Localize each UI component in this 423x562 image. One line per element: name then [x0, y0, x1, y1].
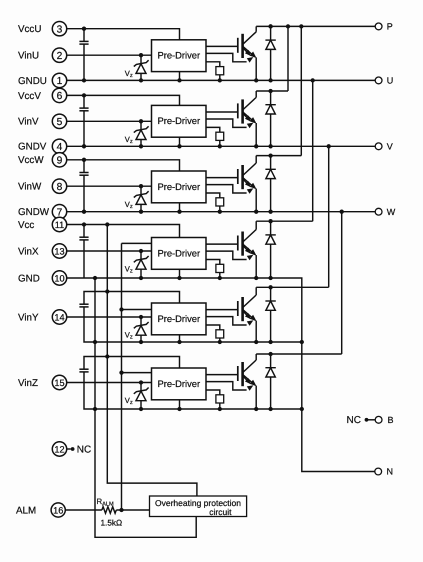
junction Vcc bus tap: [105, 289, 109, 293]
wire collector of Q2: [255, 91, 257, 97]
main rail P (positive DC bus): [256, 25, 375, 27]
wire emitter of Q4 to rail: [255, 255, 257, 278]
capacitor C6: [79, 369, 88, 372]
terminal N: [375, 467, 393, 477]
junction bus tap on rail: [327, 144, 331, 148]
terminal W: [375, 207, 396, 217]
svg-text:VinZ: VinZ: [18, 378, 38, 389]
diode D3 (freewheeling): [265, 153, 275, 213]
svg-text:10: 10: [54, 274, 64, 284]
svg-text:V: V: [387, 142, 393, 152]
capacitor C5: [79, 304, 88, 307]
junction Vcc/C4: [82, 222, 86, 226]
pre-driver U5 (Y-phase driver block): [152, 303, 207, 335]
junction alarm bus tap: [119, 370, 123, 374]
wire local Vcc line to U5 top: [84, 292, 180, 305]
pin 10 terminal circle (GND): [52, 271, 66, 285]
resistor RALM 1.5k: [97, 497, 123, 527]
resistor RS6 (current sense): [206, 390, 224, 411]
wire VccW line from pin to U3 top: [67, 160, 180, 171]
transistor Q1 (IGBT U): [238, 32, 257, 58]
junction alarm bus / ALM node: [119, 508, 123, 512]
svg-text:9: 9: [57, 155, 63, 166]
pin 15 terminal circle (VinZ): [52, 375, 66, 389]
junction diode D1 on P rail: [268, 24, 272, 28]
zener diode ZD6 (Vz clamp): [134, 380, 149, 411]
svg-text:Vz: Vz: [125, 200, 133, 210]
wire VinV line into U2: [67, 120, 152, 122]
main rail V (output line / GNDV): [67, 145, 375, 147]
wire VccV line from pin to U2 top: [67, 95, 180, 105]
pre-driver U1 (U-phase driver block): [152, 40, 207, 72]
diode D1 (freewheeling): [265, 24, 275, 82]
wire collector bus from rail to section 5: [328, 146, 330, 287]
pin 3 terminal circle (VccU): [52, 22, 66, 36]
wire VinX line into U4: [67, 250, 152, 252]
resistor RS5 (current sense): [206, 325, 224, 344]
terminal U: [375, 76, 393, 86]
pin 13 terminal circle (VinX): [52, 244, 66, 258]
transistor Q6 (IGBT Z): [238, 360, 257, 386]
svg-text:Pre-Driver: Pre-Driver: [157, 247, 200, 258]
svg-text:NC: NC: [77, 445, 91, 456]
svg-text:U: U: [387, 76, 394, 86]
wire collector step rail section 2: [256, 90, 288, 92]
resistor RS3 (current sense): [206, 193, 224, 214]
junction bus tap on rail: [340, 210, 344, 214]
svg-text:VinV: VinV: [18, 117, 39, 128]
pin 1 terminal circle (GNDU): [52, 73, 66, 87]
junction GND bus on Z emitter line: [93, 407, 97, 411]
wire U3 ground leg: [179, 203, 181, 212]
resistor RS2 (current sense): [206, 127, 224, 148]
overheating protection circuit block: [150, 496, 247, 517]
wire GND(10) line to N bus: [67, 278, 375, 472]
svg-text:VinU: VinU: [18, 51, 39, 62]
svg-text:B: B: [388, 415, 394, 425]
svg-text:3: 3: [57, 24, 63, 35]
wire collector bus from rail to section 6: [341, 212, 343, 354]
zener diode ZD5 (Vz clamp): [134, 315, 149, 344]
capacitor C2: [79, 95, 88, 146]
wire alarm input into U5: [122, 309, 152, 311]
junction bus tap on rail: [286, 24, 290, 28]
wire Vcc bus (pin 11) down to protection circuit: [107, 225, 197, 497]
wire Y emitter line: [84, 307, 302, 342]
wire ALM node to protection box: [116, 509, 149, 511]
wire VinW line into U3: [67, 185, 152, 187]
NC dot at B: [365, 418, 369, 422]
wire VinY line into U5: [67, 316, 152, 318]
junction Y emitter line on N bus: [300, 340, 304, 344]
wire pin 12 stub to NC dot: [67, 448, 71, 450]
wire emitter of Q6 to rail: [255, 386, 257, 409]
wire VccU line from pin to U1 top: [67, 29, 180, 40]
wire VinZ line into U6: [67, 382, 152, 384]
junction VccW/C3: [82, 158, 86, 162]
pin 9 terminal circle (VccW): [52, 153, 66, 167]
wire collector of Q1: [255, 26, 257, 31]
wire gate lead U3 to Q3: [206, 177, 238, 179]
junction VccU/C1: [82, 27, 86, 31]
pin 14 terminal circle (VinY): [52, 310, 66, 324]
wire collector of Q6: [255, 354, 257, 360]
wire U2 ground leg: [179, 137, 181, 146]
wire collector bus from rail to section 3: [300, 26, 302, 155]
diode D6 (freewheeling): [265, 352, 275, 411]
wire gate lead U5 to Q5: [206, 309, 238, 311]
svg-text:NC: NC: [347, 415, 361, 426]
wire U4 ground leg: [179, 269, 181, 278]
wire U1 ground leg: [179, 72, 181, 81]
wire emitter of Q2 to rail: [255, 123, 257, 146]
pre-driver U2 (V-phase driver block): [152, 105, 207, 137]
junction C on rail W: [82, 210, 86, 214]
wire alarm input into U6: [122, 372, 152, 374]
wire gate lead U4 to Q4: [206, 243, 238, 245]
wire U6 ground leg: [179, 400, 181, 409]
junction Vcc bus tap: [105, 222, 109, 226]
svg-text:Pre-Driver: Pre-Driver: [157, 115, 200, 126]
wire gate lead U1 to Q1: [206, 45, 238, 47]
wire U1 sense output: [206, 53, 247, 61]
svg-text:Vz: Vz: [125, 69, 133, 79]
wire NC stub to B: [368, 419, 376, 421]
svg-text:VinX: VinX: [18, 246, 39, 257]
pre-driver U4 (X-phase driver block): [152, 238, 207, 270]
svg-text:VinW: VinW: [18, 182, 42, 193]
pre-driver U3 (W-phase driver block): [152, 171, 207, 203]
svg-text:Pre-Driver: Pre-Driver: [157, 313, 200, 324]
diode D4 (freewheeling): [265, 219, 275, 280]
svg-text:Vcc: Vcc: [18, 220, 34, 231]
wire collector bus from rail to section 4: [312, 80, 314, 221]
svg-text:4: 4: [57, 142, 63, 153]
svg-text:Vz: Vz: [125, 265, 133, 275]
junction GND bus on GND line: [93, 276, 97, 280]
wire U3 sense output: [206, 185, 247, 193]
svg-text:Vz: Vz: [125, 135, 133, 145]
svg-text:13: 13: [54, 247, 64, 257]
pin 2 terminal circle (VinU): [52, 48, 66, 62]
svg-text:15: 15: [54, 378, 64, 388]
svg-text:Pre-Driver: Pre-Driver: [157, 378, 200, 389]
junction Z emitter line on N bus: [300, 407, 304, 411]
resistor RS1 (current sense): [206, 62, 224, 83]
capacitor C4: [79, 225, 88, 279]
svg-text:16: 16: [53, 506, 63, 516]
wire alarm input into U4: [122, 242, 152, 244]
wire collector of Q4: [255, 221, 257, 229]
svg-text:2: 2: [57, 51, 63, 62]
pre-driver U6 (Z-phase driver block): [152, 368, 207, 400]
zener diode ZD2 (Vz clamp): [134, 119, 149, 148]
wire U2 sense output: [206, 119, 247, 127]
wire emitter of Q3 to rail: [255, 189, 257, 212]
svg-text:P: P: [387, 22, 393, 32]
svg-text:1.5kΩ: 1.5kΩ: [101, 519, 123, 528]
svg-text:GNDU: GNDU: [18, 76, 47, 87]
pin 16 terminal circle (ALM): [51, 503, 65, 517]
svg-text:8: 8: [57, 182, 63, 193]
capacitor C3: [79, 160, 88, 212]
wire ALM line: [65, 509, 102, 511]
junction bus tap on rail: [299, 24, 303, 28]
wire collector step rail section 6: [256, 353, 342, 355]
wire collector step rail section 4: [256, 220, 313, 222]
svg-text:GNDW: GNDW: [18, 207, 50, 218]
wire gate lead U6 to Q6: [206, 374, 238, 376]
svg-text:Vz: Vz: [125, 396, 133, 406]
transistor Q4 (IGBT X): [238, 230, 257, 256]
pin 8 terminal circle (VinW): [52, 179, 66, 193]
svg-text:N: N: [387, 467, 394, 477]
junction Vcc bus tap: [105, 354, 109, 358]
junction C on rail U: [82, 78, 86, 82]
wire gate lead U2 to Q2: [206, 111, 238, 113]
svg-text:VccV: VccV: [18, 91, 41, 102]
main rail U (output line / GNDU): [67, 79, 375, 81]
wire collector of Q3: [255, 156, 257, 163]
svg-text:RALM: RALM: [97, 497, 114, 507]
svg-text:6: 6: [57, 91, 63, 102]
resistor RS4 (current sense): [206, 260, 224, 281]
capacitor C1: [79, 29, 88, 81]
svg-text:Pre-Driver: Pre-Driver: [157, 181, 200, 192]
wire VinU line into U1: [67, 54, 152, 56]
transistor Q3 (IGBT W): [238, 163, 257, 189]
junction alarm bus tap: [119, 307, 123, 311]
terminal V: [375, 142, 393, 152]
wire emitter of Q5 to rail: [255, 321, 257, 342]
junction GND bus on Y emitter line: [93, 340, 97, 344]
wire U5 sense output: [206, 317, 247, 325]
wire collector bus from rail to section 2: [287, 26, 289, 91]
svg-text:12: 12: [54, 445, 64, 455]
svg-text:ALM: ALM: [16, 506, 36, 517]
terminal B: [375, 415, 393, 425]
svg-text:VinY: VinY: [18, 312, 39, 323]
zener diode ZD3 (Vz clamp): [134, 184, 149, 214]
wire emitter of Q1 to rail: [255, 57, 257, 80]
wire Vcc line from pin to U4 top: [67, 225, 180, 238]
junction bus tap on rail: [311, 78, 315, 82]
svg-text:11: 11: [55, 220, 65, 230]
wire collector step rail section 5: [256, 286, 329, 288]
wire alarm bus: [121, 243, 123, 510]
svg-text:VccW: VccW: [18, 155, 44, 166]
svg-text:W: W: [387, 207, 396, 217]
wire collector step rail section 3: [256, 155, 301, 157]
svg-text:14: 14: [54, 313, 64, 323]
svg-text:Vz: Vz: [125, 331, 133, 341]
zener diode ZD4 (Vz clamp): [134, 249, 149, 280]
wire GND bus (pin 10) down and around to protection circuit: [95, 278, 196, 537]
junction VccV/C2: [82, 93, 86, 97]
pin 7 terminal circle (GNDW): [52, 205, 66, 219]
wire U5 ground leg: [179, 335, 181, 342]
svg-text:1: 1: [57, 76, 63, 87]
diode D5 (freewheeling): [265, 285, 275, 344]
svg-text:GNDV: GNDV: [18, 142, 47, 153]
svg-text:VccU: VccU: [18, 24, 41, 35]
pin 5 terminal circle (VinV): [52, 114, 66, 128]
pin 12 terminal circle (NC): [52, 442, 66, 456]
wire collector of Q5: [255, 287, 257, 295]
zener diode ZD1 (Vz clamp): [134, 53, 149, 83]
pin 11 terminal circle (Vcc): [52, 217, 66, 231]
wire Z emitter line: [84, 372, 302, 409]
transistor Q5 (IGBT Y): [238, 295, 257, 321]
wire U6 sense output: [206, 382, 247, 390]
wire U4 sense output: [206, 251, 247, 259]
main rail W (output line / GNDW): [67, 211, 375, 213]
pin 4 terminal circle (GNDV): [52, 139, 66, 153]
svg-text:5: 5: [57, 117, 63, 128]
svg-text:Pre-Driver: Pre-Driver: [157, 50, 200, 61]
pin 6 terminal circle (VccV): [52, 88, 66, 102]
junction C on rail V: [82, 144, 86, 148]
wire local Vcc line to U6 top: [84, 357, 180, 370]
diode D2 (freewheeling): [265, 89, 275, 149]
svg-text:GND: GND: [18, 273, 40, 284]
svg-text:circuit: circuit: [209, 507, 232, 517]
terminal P: [375, 22, 393, 32]
transistor Q2 (IGBT V): [238, 97, 257, 123]
